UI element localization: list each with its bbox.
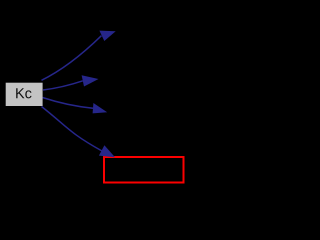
edge Kc->n2 (upper middle): [43, 75, 99, 90]
node Kc (gray box): [6, 83, 43, 106]
edge Kc->n3 (lower middle): [43, 98, 108, 114]
cluster border (red rectangle): [104, 157, 184, 183]
edge Kc->n1 (top): [42, 31, 116, 81]
edge Kc->cluster (bottom): [42, 107, 116, 158]
